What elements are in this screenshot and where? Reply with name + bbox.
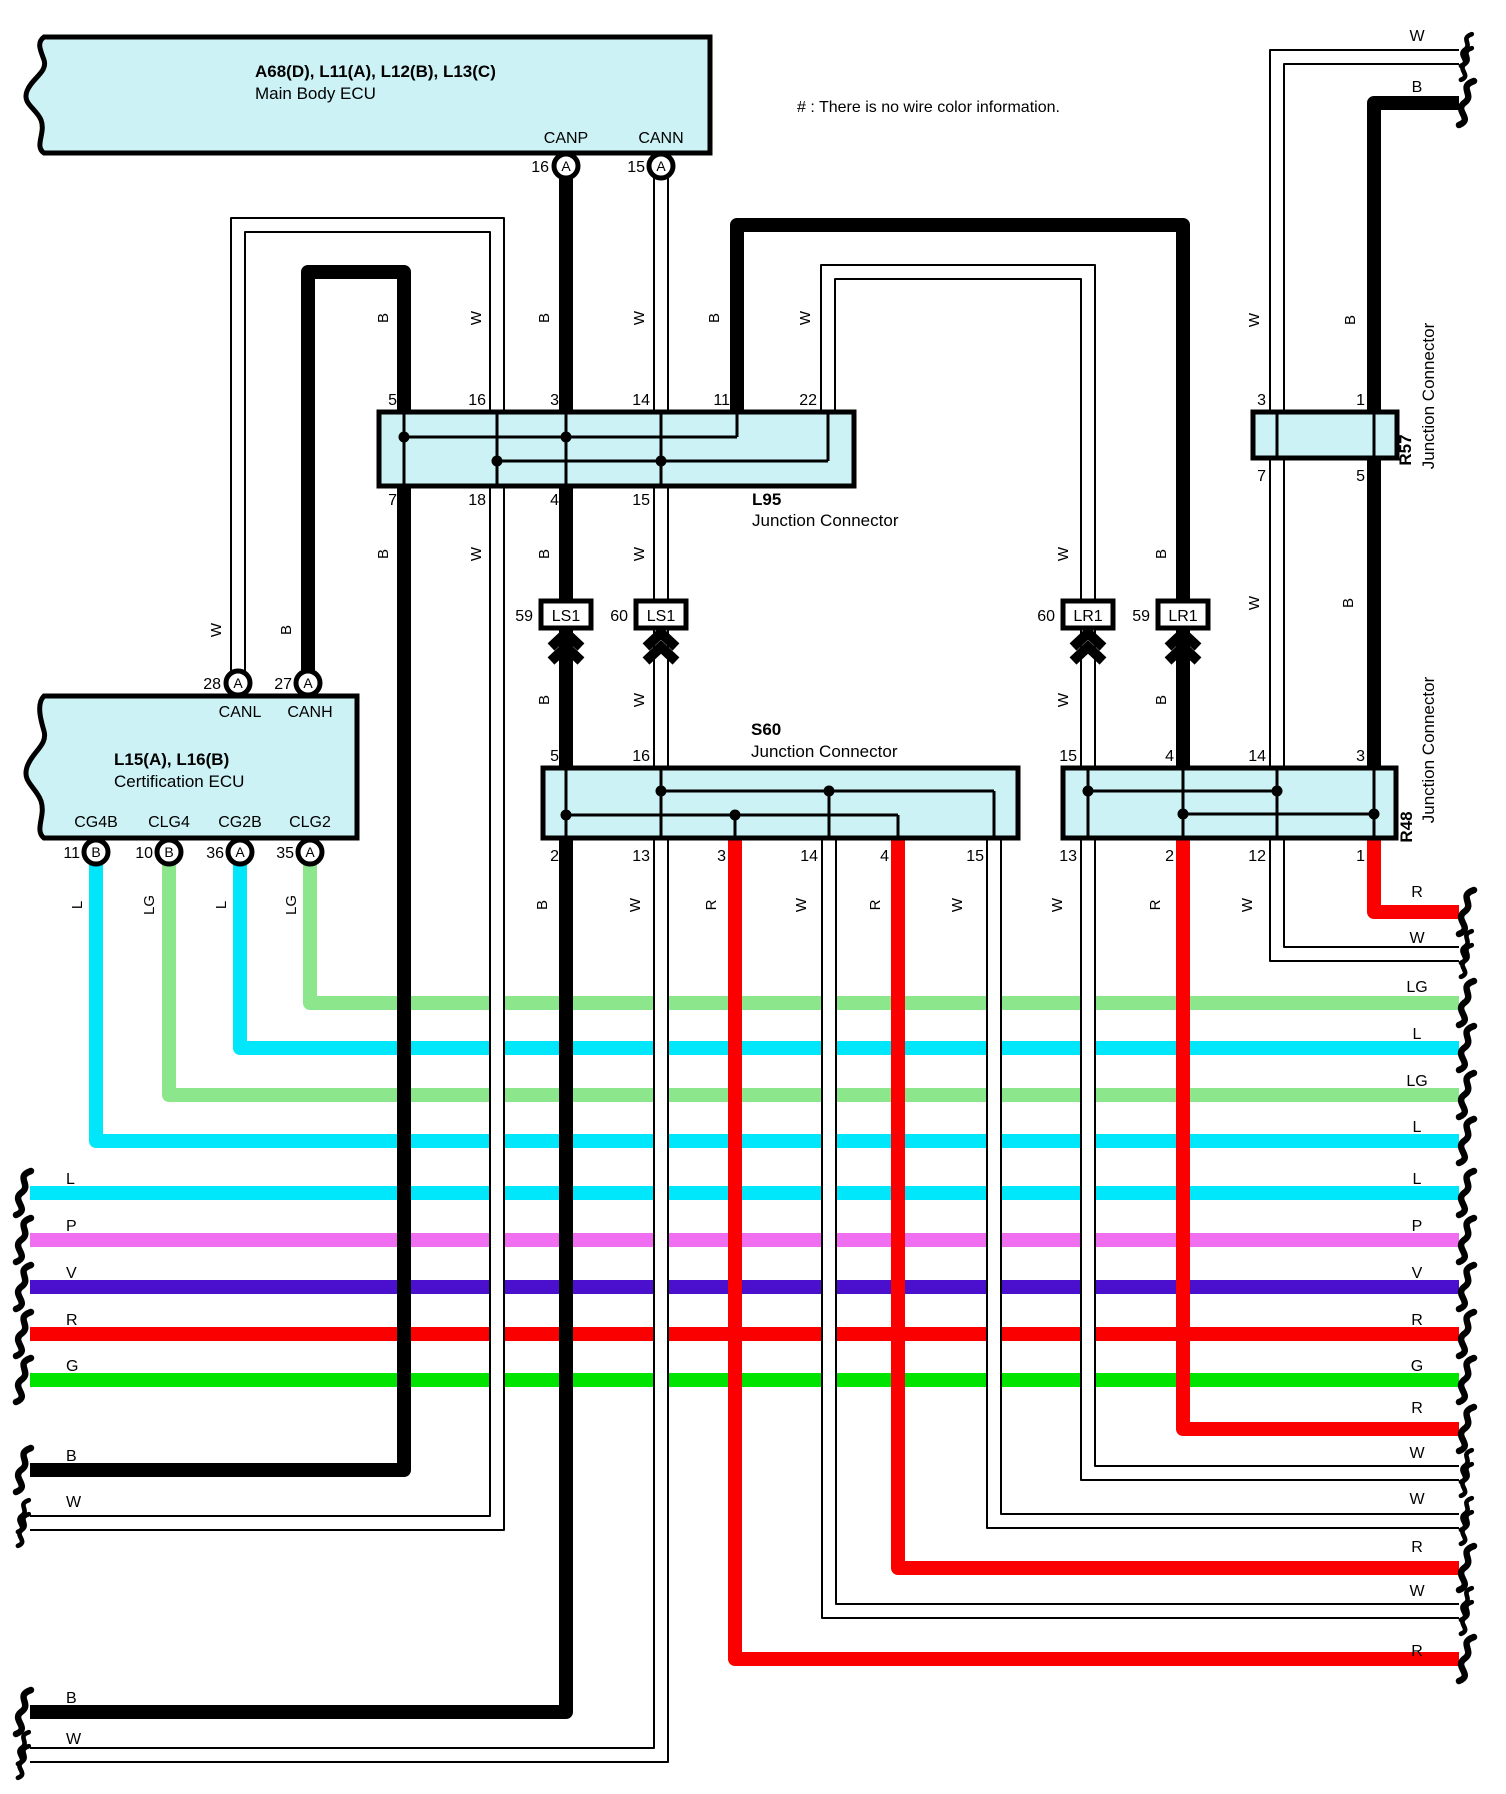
svg-text:1: 1	[1356, 848, 1365, 865]
svg-text:28: 28	[203, 676, 221, 693]
svg-text:L15(A), L16(B): L15(A), L16(B)	[114, 750, 229, 769]
svg-text:B: B	[66, 1690, 77, 1707]
wire W from L95 pin 18 to bottom left	[30, 486, 504, 1530]
svg-text:16: 16	[531, 159, 549, 176]
connector LS1 pin 59	[541, 601, 591, 628]
svg-text:12: 12	[1248, 848, 1266, 865]
svg-text:3: 3	[717, 848, 726, 865]
wire L from CG2B pin 36	[240, 852, 1459, 1048]
svg-text:W: W	[66, 1731, 82, 1748]
svg-text:W: W	[1055, 692, 1072, 707]
wire W from L95 pin 22 to LR1 60	[821, 265, 1095, 601]
svg-text:16: 16	[632, 748, 650, 765]
wire W from R57 pin 7 to R48 pin 14	[1270, 458, 1284, 768]
svg-text:13: 13	[632, 848, 650, 865]
svg-text:R57: R57	[1396, 434, 1415, 465]
svg-text:Junction Connector: Junction Connector	[752, 511, 899, 530]
svg-text:V: V	[1412, 1265, 1423, 1282]
wire P full width	[30, 1233, 1459, 1247]
svg-text:W: W	[1409, 28, 1425, 45]
wire R from S60 pin 4 to right	[898, 838, 1459, 1568]
svg-text:B: B	[536, 695, 553, 705]
connector LR1 60 chevron	[1073, 633, 1103, 661]
svg-text:# : There is no wire color inf: # : There is no wire color information.	[797, 99, 1060, 116]
svg-text:W: W	[468, 310, 485, 325]
wire W from top right to R57 pin 3	[1270, 50, 1459, 412]
svg-text:W: W	[949, 897, 966, 912]
svg-text:11: 11	[713, 392, 730, 409]
svg-text:B: B	[706, 313, 723, 323]
wire B from R57 pin 5 to R48 pin 3	[1367, 458, 1381, 768]
svg-text:S60: S60	[751, 720, 781, 739]
svg-text:R: R	[1411, 1643, 1423, 1660]
wire R from S60 pin 3 to right	[735, 838, 1459, 1659]
svg-text:W: W	[1409, 1491, 1425, 1508]
wire W from R48 pin 12 to right	[1270, 838, 1459, 961]
svg-text:16: 16	[468, 392, 486, 409]
left edge wire labels	[66, 1171, 82, 1748]
wire W from LR1 60 to R48 pin 15	[1081, 628, 1095, 768]
pin 10 B of Certification ECU (CLG4)	[157, 840, 181, 864]
wire break symbols right edge	[1459, 34, 1474, 1681]
svg-text:60: 60	[610, 608, 628, 625]
svg-text:B: B	[1412, 79, 1423, 96]
wire W from L95 pin 15 to LS1 60	[654, 486, 668, 601]
svg-text:5: 5	[388, 392, 397, 409]
wire B from CANP pin 16 to L95 pin 3	[559, 166, 573, 412]
svg-text:2: 2	[1165, 848, 1174, 865]
svg-text:R: R	[867, 899, 884, 910]
wire W from S60 pin 14 to right	[822, 838, 1459, 1618]
svg-text:B: B	[1153, 695, 1170, 705]
connector LR1 pin 60	[1063, 601, 1113, 628]
svg-text:3: 3	[550, 392, 559, 409]
LS1 LR1 pin numbers	[515, 608, 1150, 625]
wire R full width	[30, 1327, 1459, 1341]
svg-text:P: P	[66, 1218, 77, 1235]
svg-text:B: B	[536, 549, 553, 559]
svg-text:35: 35	[276, 845, 294, 862]
svg-text:CANH: CANH	[287, 704, 332, 721]
svg-text:10: 10	[135, 845, 153, 862]
svg-text:R: R	[1411, 1400, 1423, 1417]
pin 27 A of Certification ECU (CANH)	[296, 671, 320, 695]
svg-text:R: R	[1147, 899, 1164, 910]
svg-text:P: P	[1412, 1218, 1423, 1235]
wire L full width	[30, 1186, 1459, 1200]
svg-text:14: 14	[632, 392, 650, 409]
svg-text:LG: LG	[283, 895, 300, 915]
svg-text:CG4B: CG4B	[74, 814, 118, 831]
wire R from R48 pin 1 to right	[1374, 838, 1459, 912]
svg-text:4: 4	[550, 492, 559, 509]
svg-text:5: 5	[1356, 468, 1365, 485]
wire B from L95 pin 11 through LR1 59 to R48 pin 4	[737, 225, 1183, 768]
wire W from LS1 60 to S60 pin 16	[654, 628, 668, 768]
wire colour letters row above L95	[375, 310, 1359, 327]
svg-text:B: B	[164, 844, 173, 860]
right edge wire labels	[1406, 28, 1427, 1660]
svg-text:Certification ECU: Certification ECU	[114, 772, 244, 791]
svg-text:15: 15	[627, 159, 645, 176]
wire colour letters near Certification ECU	[208, 622, 295, 637]
svg-text:R: R	[1411, 1312, 1423, 1329]
svg-text:A: A	[233, 675, 243, 691]
S60 internal wires	[561, 768, 995, 838]
R48 internal wires	[1083, 768, 1380, 838]
svg-text:L: L	[1413, 1026, 1422, 1043]
svg-text:W: W	[1055, 546, 1072, 561]
pin 35 A of Certification ECU (CLG2)	[298, 840, 322, 864]
svg-text:1: 1	[1356, 392, 1365, 409]
svg-text:R: R	[66, 1312, 78, 1329]
svg-text:G: G	[66, 1358, 78, 1375]
svg-text:Junction Connector: Junction Connector	[1419, 676, 1438, 823]
ECU L15 Certification ECU box	[26, 696, 357, 838]
svg-text:B: B	[278, 625, 295, 635]
svg-text:5: 5	[550, 748, 559, 765]
svg-text:Junction Connector: Junction Connector	[751, 742, 898, 761]
svg-text:2: 2	[550, 848, 559, 865]
wire W from S60 pin 15 to right	[987, 838, 1459, 1528]
svg-text:B: B	[375, 313, 392, 323]
svg-text:W: W	[1049, 897, 1066, 912]
svg-text:R: R	[1411, 884, 1423, 901]
svg-text:CLG2: CLG2	[289, 814, 331, 831]
wire colour letters row above S60 and R48	[536, 692, 1170, 707]
svg-text:W: W	[1239, 897, 1256, 912]
wire LG from CLG4 pin 10	[169, 852, 1459, 1095]
connector LR1 pin 59	[1158, 601, 1208, 628]
svg-text:3: 3	[1356, 748, 1365, 765]
svg-text:B: B	[1342, 315, 1359, 325]
wire W from CANL pin 28 to L95 pin 16	[231, 218, 504, 676]
svg-text:Junction Connector: Junction Connector	[1419, 322, 1438, 469]
svg-text:W: W	[468, 546, 485, 561]
pin 28 A of Certification ECU (CANL)	[226, 671, 250, 695]
wire B from L95 pin 7 to bottom left	[30, 486, 404, 1470]
wire B from CANH pin 27 to L95 pin 5	[308, 272, 404, 676]
R57 internal wires	[1277, 412, 1374, 458]
svg-text:W: W	[208, 622, 225, 637]
junction connector R57 box	[1253, 412, 1397, 458]
svg-text:CLG4: CLG4	[148, 814, 190, 831]
svg-text:14: 14	[800, 848, 818, 865]
svg-text:B: B	[1340, 598, 1357, 608]
svg-text:14: 14	[1248, 748, 1266, 765]
pin 16 A of Main Body ECU (CANP)	[554, 154, 578, 178]
wire W from S60 pin 13 to bottom left	[30, 838, 668, 1762]
svg-text:B: B	[536, 313, 553, 323]
svg-text:3: 3	[1257, 392, 1266, 409]
svg-text:LG: LG	[1406, 1073, 1427, 1090]
svg-text:11: 11	[63, 845, 80, 862]
junction connector R48 box	[1063, 768, 1396, 838]
svg-text:B: B	[375, 549, 392, 559]
svg-text:A: A	[561, 158, 571, 174]
svg-text:W: W	[631, 692, 648, 707]
svg-text:CANP: CANP	[544, 130, 588, 147]
connector LS1 59 chevron	[551, 633, 581, 661]
svg-text:CG2B: CG2B	[218, 814, 262, 831]
svg-text:A: A	[303, 675, 313, 691]
svg-text:LG: LG	[1406, 979, 1427, 996]
connector LS1 60 chevron	[646, 633, 676, 661]
svg-text:LS1: LS1	[552, 608, 581, 625]
svg-text:G: G	[1411, 1358, 1423, 1375]
svg-text:B: B	[534, 900, 551, 910]
svg-text:LG: LG	[141, 895, 158, 915]
svg-text:7: 7	[1257, 468, 1266, 485]
svg-text:15: 15	[966, 848, 984, 865]
svg-text:B: B	[66, 1448, 77, 1465]
svg-text:59: 59	[515, 608, 533, 625]
svg-text:22: 22	[799, 392, 817, 409]
wire break symbols left edge	[16, 1171, 31, 1778]
svg-text:15: 15	[632, 492, 650, 509]
wire LG from CLG2 pin 35	[310, 852, 1459, 1003]
svg-text:Main Body ECU: Main Body ECU	[255, 84, 376, 103]
svg-text:A: A	[305, 844, 315, 860]
svg-text:W: W	[1409, 930, 1425, 947]
svg-text:4: 4	[880, 848, 889, 865]
svg-text:13: 13	[1059, 848, 1077, 865]
svg-text:L95: L95	[752, 490, 781, 509]
wire colour letters row below L95	[375, 546, 1357, 610]
svg-text:W: W	[1409, 1445, 1425, 1462]
svg-text:V: V	[66, 1265, 77, 1282]
connector LS1 pin 60	[636, 601, 686, 628]
pin 11 B of Certification ECU (CG4B)	[84, 840, 108, 864]
ECU A68 Main Body ECU box	[26, 37, 710, 153]
svg-text:60: 60	[1037, 608, 1055, 625]
svg-text:15: 15	[1059, 748, 1077, 765]
svg-text:A: A	[235, 844, 245, 860]
connector LR1 59 chevron	[1168, 633, 1198, 661]
wire L from CG4B pin 11	[96, 852, 1459, 1141]
svg-text:L: L	[66, 1171, 75, 1188]
pin 15 A of Main Body ECU (CANN)	[649, 154, 673, 178]
svg-text:W: W	[1246, 595, 1263, 610]
svg-text:W: W	[797, 310, 814, 325]
svg-text:W: W	[1409, 1583, 1425, 1600]
svg-text:CANN: CANN	[638, 130, 683, 147]
svg-text:W: W	[793, 897, 810, 912]
svg-text:W: W	[631, 310, 648, 325]
svg-text:LR1: LR1	[1073, 608, 1102, 625]
svg-text:LS1: LS1	[647, 608, 676, 625]
svg-text:36: 36	[206, 845, 224, 862]
L95 internal wires	[399, 412, 829, 486]
junction connector L95 box	[379, 412, 854, 486]
svg-text:59: 59	[1132, 608, 1150, 625]
wire R from R48 pin 2 to right	[1183, 838, 1459, 1429]
wire B from S60 pin 2 to bottom left	[30, 838, 566, 1712]
svg-text:R: R	[1411, 1539, 1423, 1556]
svg-text:W: W	[631, 546, 648, 561]
svg-text:W: W	[1246, 312, 1263, 327]
wire W from CANN pin 15 to L95 pin 14	[654, 166, 668, 412]
svg-text:L: L	[1413, 1119, 1422, 1136]
svg-text:27: 27	[274, 676, 292, 693]
svg-text:CANL: CANL	[219, 704, 262, 721]
wire B from L95 pin 4 through LS1 59 to S60 pin 5	[559, 486, 573, 768]
svg-text:W: W	[627, 897, 644, 912]
svg-text:A68(D), L11(A), L12(B), L13(C): A68(D), L11(A), L12(B), L13(C)	[255, 62, 496, 81]
wire G full width	[30, 1373, 1459, 1387]
svg-text:18: 18	[468, 492, 486, 509]
junction connector S60 box	[543, 768, 1018, 838]
svg-text:L: L	[213, 901, 230, 909]
svg-text:W: W	[66, 1494, 82, 1511]
svg-text:4: 4	[1165, 748, 1174, 765]
pin 36 A of Certification ECU (CG2B)	[228, 840, 252, 864]
svg-text:L: L	[1413, 1171, 1422, 1188]
wire B from top right to R57 pin 1	[1374, 103, 1459, 412]
wire V full width	[30, 1280, 1459, 1294]
svg-text:B: B	[91, 844, 100, 860]
svg-text:A: A	[656, 158, 666, 174]
svg-text:B: B	[1153, 549, 1170, 559]
wire W from R48 pin 13 to right	[1081, 838, 1459, 1480]
svg-text:R: R	[703, 899, 720, 910]
svg-text:LR1: LR1	[1168, 608, 1197, 625]
svg-text:R48: R48	[1397, 811, 1416, 842]
svg-text:L: L	[69, 901, 86, 909]
svg-text:7: 7	[388, 492, 397, 509]
wire colour letters row below S60 and R48	[69, 895, 1256, 915]
